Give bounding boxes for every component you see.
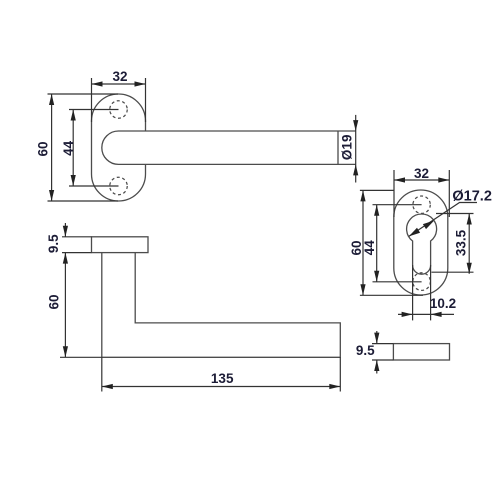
svg-text:33.5: 33.5 bbox=[454, 229, 469, 256]
svg-text:44: 44 bbox=[362, 240, 377, 256]
svg-text:9.5: 9.5 bbox=[356, 343, 375, 358]
svg-text:32: 32 bbox=[112, 69, 127, 84]
svg-text:135: 135 bbox=[211, 371, 234, 386]
svg-text:9.5: 9.5 bbox=[46, 234, 61, 253]
svg-text:Ø17.2: Ø17.2 bbox=[452, 189, 492, 205]
svg-text:60: 60 bbox=[36, 141, 51, 156]
svg-text:Ø19: Ø19 bbox=[339, 135, 354, 161]
svg-text:60: 60 bbox=[47, 294, 62, 309]
svg-text:32: 32 bbox=[414, 166, 429, 181]
svg-text:10.2: 10.2 bbox=[430, 296, 456, 311]
svg-text:44: 44 bbox=[61, 140, 76, 156]
